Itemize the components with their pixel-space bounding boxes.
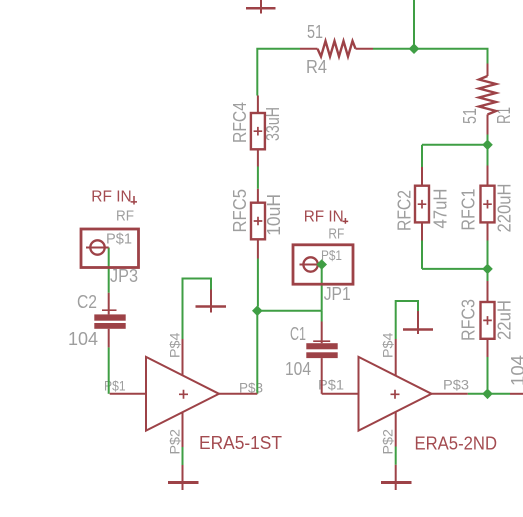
svg-text:R1: R1: [494, 107, 514, 124]
svg-text:P$1: P$1: [321, 247, 342, 263]
svg-text:P$2: P$2: [381, 429, 396, 455]
svg-text:JP3: JP3: [110, 266, 138, 286]
svg-text:RFC2: RFC2: [395, 190, 415, 231]
svg-text:104: 104: [68, 329, 98, 349]
svg-text:ERA5-1ST: ERA5-1ST: [199, 433, 282, 453]
svg-text:P$4: P$4: [381, 332, 396, 358]
svg-text:RFC5: RFC5: [230, 189, 250, 233]
svg-text:51: 51: [460, 108, 480, 124]
svg-text:104: 104: [285, 359, 311, 379]
svg-text:47uH: 47uH: [431, 189, 451, 229]
svg-text:RF IN: RF IN: [304, 209, 344, 226]
svg-text:P$3: P$3: [443, 378, 469, 393]
svg-text:RF: RF: [116, 208, 134, 225]
svg-text:P$1: P$1: [104, 379, 126, 394]
svg-text:51: 51: [307, 22, 323, 42]
svg-text:JP1: JP1: [324, 284, 351, 304]
svg-text:RFC4: RFC4: [230, 102, 250, 143]
svg-text:P$1: P$1: [106, 231, 132, 248]
svg-text:C1: C1: [290, 324, 306, 344]
svg-text:10uH: 10uH: [264, 194, 284, 236]
svg-text:RFC1: RFC1: [459, 189, 479, 231]
svg-text:C2: C2: [77, 292, 97, 312]
svg-text:RFC3: RFC3: [459, 299, 479, 341]
svg-text:P$4: P$4: [167, 332, 182, 358]
svg-text:104: 104: [508, 355, 523, 386]
svg-text:RF IN: RF IN: [91, 188, 131, 205]
svg-text:RF: RF: [328, 226, 344, 243]
svg-text:R4: R4: [306, 57, 327, 77]
svg-text:P$2: P$2: [167, 429, 182, 455]
svg-text:ERA5-2ND: ERA5-2ND: [415, 434, 498, 454]
svg-text:22uH: 22uH: [495, 300, 515, 340]
svg-text:220uH: 220uH: [495, 184, 515, 233]
